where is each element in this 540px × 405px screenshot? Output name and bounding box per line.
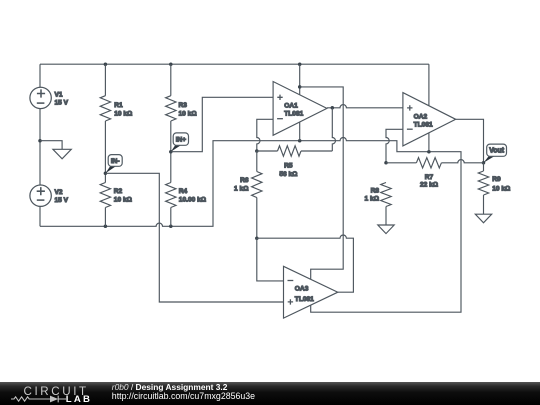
op-amp OA1 [273, 82, 327, 136]
svg-text:R1: R1 [114, 102, 123, 109]
svg-text:10 kΩ: 10 kΩ [114, 110, 133, 117]
wire: OA3 inverting input [257, 238, 284, 281]
resistor R6 [234, 151, 262, 238]
svg-text:TL081: TL081 [414, 122, 433, 129]
svg-text:http://circuitlab.com/cu7mxg28: http://circuitlab.com/cu7mxg2856u3e [112, 391, 255, 401]
wire: ground branch [40, 141, 62, 150]
svg-text:Vout: Vout [489, 148, 505, 155]
node: top rail junction at R3 [169, 62, 173, 66]
wire: branch to OA3 V+ pin [300, 87, 344, 279]
svg-text:10 kΩ: 10 kΩ [179, 110, 198, 117]
svg-text:22 kΩ: 22 kΩ [420, 182, 439, 189]
node: IN- (R1/R2 junction) [104, 172, 108, 176]
wire: OA3 feedback from output [257, 235, 354, 292]
wire: +15V top rail [40, 63, 429, 65]
svg-text:R2: R2 [114, 188, 123, 195]
svg-text:15 V: 15 V [55, 100, 69, 107]
svg-text:LAB: LAB [66, 394, 92, 405]
svg-text:TL081: TL081 [295, 296, 314, 303]
svg-text:10 kΩ: 10 kΩ [114, 196, 133, 203]
svg-text:TL081: TL081 [284, 111, 303, 118]
resistor R1 [100, 64, 133, 173]
svg-text:OA1: OA1 [284, 102, 298, 109]
node: top rail junction at OA1 V+ [298, 62, 302, 66]
svg-text:IN-: IN- [111, 158, 120, 165]
resistor R9 [478, 163, 511, 214]
svg-text:V2: V2 [55, 189, 63, 196]
node: R7/R8/OA2- junction [384, 161, 388, 165]
wire: -15V bottom bus and right riser to V- rail [40, 138, 461, 313]
svg-text:56 kΩ: 56 kΩ [279, 171, 298, 178]
svg-text:1 kΩ: 1 kΩ [234, 186, 249, 193]
wire: OA2 inverting input to R7/R8 node [386, 129, 403, 163]
node: bus junction at R2 [104, 225, 108, 229]
node: V1-/V2+ junction [38, 139, 42, 143]
node: V- rail at OA1 V- pin [298, 139, 302, 143]
node: V- rail at OA2 V- pin [427, 150, 431, 154]
svg-text:IN+: IN+ [176, 136, 187, 143]
svg-text:OA3: OA3 [295, 285, 309, 292]
ground below R9 [475, 214, 491, 223]
wire: OA1 inverting input to R5/R6 node [257, 119, 273, 151]
svg-text:R9: R9 [492, 176, 501, 183]
ground below R8 [378, 225, 394, 234]
footer bar [0, 382, 540, 405]
wire: OA2 V- pin [428, 133, 430, 152]
wire: OA2 V+ pin [428, 64, 430, 106]
svg-text:R8: R8 [371, 187, 380, 194]
ground (supply midpoint) [53, 149, 71, 159]
svg-text:15 V: 15 V [55, 197, 69, 204]
node: top rail junction at R1 [104, 62, 108, 66]
svg-text:10 kΩ: 10 kΩ [492, 185, 511, 192]
svg-text:R5: R5 [284, 162, 293, 169]
svg-text:OA2: OA2 [414, 113, 428, 120]
wire: OA1 V+ pin [299, 64, 301, 95]
svg-text:R3: R3 [179, 102, 188, 109]
node: Vout junction [482, 161, 486, 165]
op-amp OA3 [284, 266, 338, 318]
svg-text:10.00 kΩ: 10.00 kΩ [179, 196, 207, 203]
logo doodle: wire, resistor zigzag, diode [11, 396, 66, 403]
svg-text:R4: R4 [179, 188, 188, 195]
voltage source V2 [30, 185, 69, 226]
node: R6/OA3 feedback junction [255, 236, 259, 240]
node: IN+ (R3/R4 junction) [169, 150, 173, 154]
node: R5/R6/OA1- junction [255, 149, 259, 153]
resistor R3 [166, 64, 198, 152]
node flag IN- [105, 166, 116, 173]
op-amp OA2 [403, 93, 456, 146]
svg-text:R7: R7 [425, 174, 434, 181]
svg-text:V1: V1 [55, 91, 63, 98]
CircuitLab logo wordmark [11, 385, 92, 405]
wire: OA1 output to OA2 non-inverting input [327, 105, 403, 108]
resistor R8 [365, 183, 392, 226]
wire: OA1 V- pin [299, 122, 301, 141]
resistor R4 [166, 152, 207, 227]
resistor R7 [386, 158, 484, 189]
svg-text:1 kΩ: 1 kΩ [365, 196, 380, 203]
wire: IN- node to OA3 non-inverting input [105, 173, 283, 302]
voltage source V1 [30, 64, 69, 141]
node: OA1 output junction [331, 106, 335, 110]
node flag Vout [484, 156, 495, 163]
wire: OA2 output [456, 119, 484, 163]
resistor R5 (feedback) [257, 108, 336, 178]
wire: V1 negative to V2 positive [39, 141, 41, 185]
svg-text:R6: R6 [240, 177, 249, 184]
wire: IN+ node to OA1 non-inverting input [171, 97, 273, 151]
resistor R2 [100, 173, 132, 226]
node flag IN+ [171, 145, 182, 152]
node: bus junction at R4 [169, 225, 173, 229]
node: OA1 V+ branch [298, 85, 302, 89]
